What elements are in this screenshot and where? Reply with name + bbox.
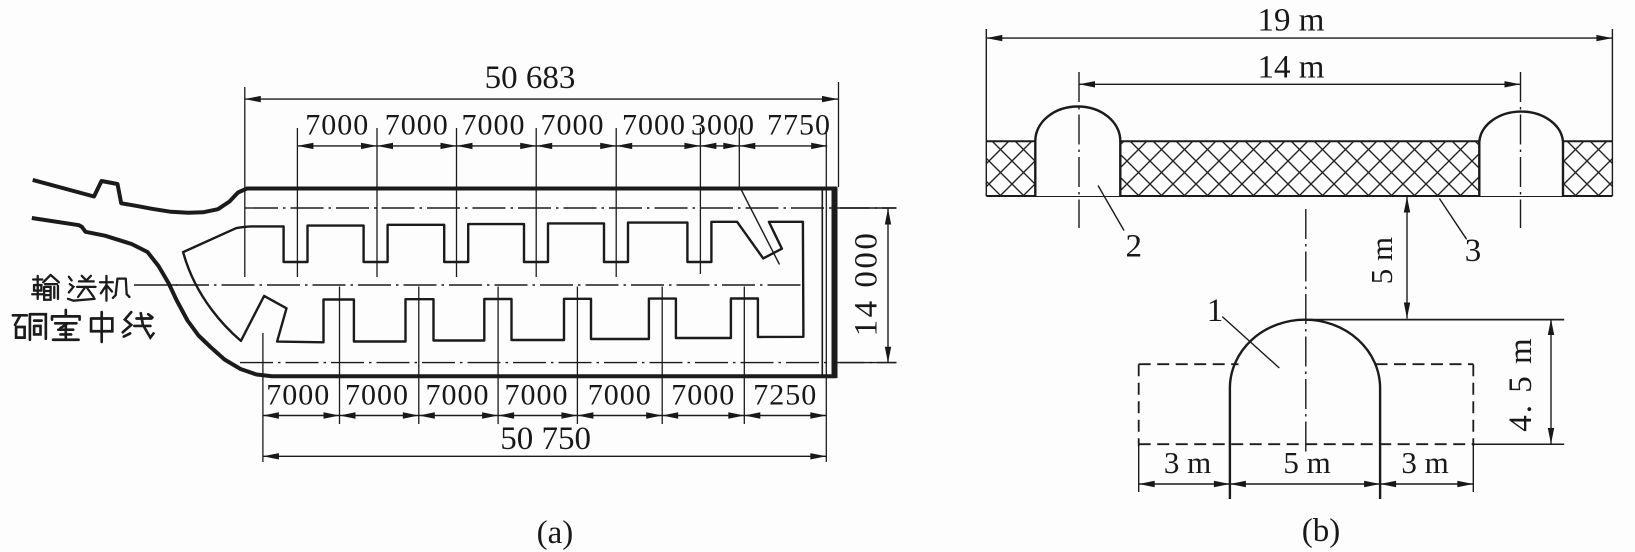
svg-text:2: 2 — [1125, 228, 1142, 264]
svg-text:3000: 3000 — [691, 109, 755, 142]
svg-text:14 m: 14 m — [1258, 50, 1325, 86]
svg-text:1: 1 — [1207, 293, 1224, 329]
svg-text:(b): (b) — [1302, 513, 1340, 549]
svg-text:7000: 7000 — [671, 379, 735, 412]
svg-text:7000: 7000 — [266, 379, 330, 412]
svg-text:7000: 7000 — [305, 109, 369, 142]
svg-text:4. 5 m: 4. 5 m — [1503, 336, 1539, 431]
svg-text:7750: 7750 — [767, 109, 831, 142]
svg-text:3 m: 3 m — [1401, 445, 1448, 480]
svg-text:7000: 7000 — [462, 109, 526, 142]
svg-text:7000: 7000 — [622, 109, 686, 142]
svg-text:(a): (a) — [537, 515, 574, 551]
svg-text:7000: 7000 — [505, 379, 569, 412]
svg-text:5 m: 5 m — [1364, 237, 1399, 284]
svg-text:7000: 7000 — [541, 109, 605, 142]
svg-text:7250: 7250 — [753, 379, 817, 412]
svg-text:3: 3 — [1465, 233, 1482, 269]
svg-text:50 750: 50 750 — [500, 421, 591, 457]
svg-text:5 m: 5 m — [1283, 445, 1330, 480]
svg-text:50 683: 50 683 — [485, 60, 576, 96]
svg-text:7000: 7000 — [588, 379, 652, 412]
svg-text:7000: 7000 — [345, 379, 409, 412]
svg-text:3 m: 3 m — [1164, 445, 1211, 480]
svg-text:14 000: 14 000 — [849, 231, 885, 337]
svg-text:19 m: 19 m — [1258, 3, 1325, 39]
svg-text:7000: 7000 — [385, 109, 449, 142]
svg-text:7000: 7000 — [426, 379, 490, 412]
